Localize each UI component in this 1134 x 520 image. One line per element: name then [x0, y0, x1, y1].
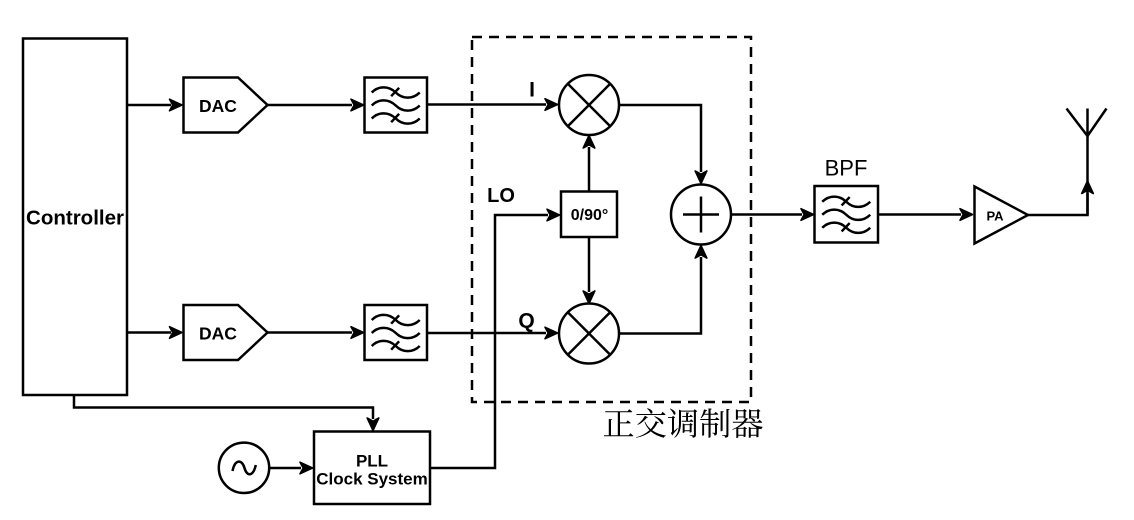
node label Q [518, 310, 534, 333]
svg-text:PA: PA [986, 209, 1004, 224]
wire mixer M2 to summer [619, 246, 707, 334]
svg-text:PLL: PLL [356, 451, 388, 470]
wire Controller to DAC2 [127, 327, 182, 339]
DAC2 block [184, 305, 268, 360]
wire PA to antenna [1028, 181, 1093, 215]
DAC1 block [184, 78, 268, 133]
mixer M2 (Q) [559, 304, 619, 364]
oscillator OSC1 [219, 443, 269, 493]
正 [604, 409, 634, 436]
wire mixer M1 to summer [619, 105, 707, 184]
wire phase shifter to mixer M1 [583, 136, 595, 192]
label BPF [825, 156, 868, 181]
wire OSC1 to PLL [269, 462, 312, 474]
dashed box quadrature modulator [472, 37, 751, 402]
wire Controller to PLL [74, 395, 379, 431]
wire phase shifter to mixer M2 [583, 237, 595, 304]
器 [732, 409, 763, 438]
antenna ANT1 [1067, 109, 1107, 216]
node label I [529, 79, 535, 102]
svg-text:0/90°: 0/90° [571, 207, 609, 224]
svg-text:DAC: DAC [199, 324, 237, 344]
node label LO [487, 185, 515, 207]
svg-text:Controller: Controller [26, 207, 124, 230]
wire LPF2 to mixer M2 [427, 327, 558, 339]
low-pass filter LPF2 [365, 305, 428, 360]
wire DAC2 to LPF2 [268, 327, 364, 339]
交 [636, 408, 666, 438]
wire LO from PLL to phase shifter [430, 209, 560, 468]
label quadrature modulator (CJK) [604, 408, 763, 438]
wire LPF1 to mixer M1 [427, 99, 558, 111]
svg-text:Clock System: Clock System [316, 469, 428, 488]
amplifier PA [975, 187, 1029, 244]
band-pass filter BPF [815, 186, 879, 243]
wire Controller to DAC1 [127, 99, 182, 111]
phase shifter 0/90 [561, 192, 617, 238]
wire BPF to PA [878, 209, 973, 221]
svg-text:I: I [529, 79, 535, 102]
controller block [23, 39, 127, 396]
svg-text:DAC: DAC [199, 96, 237, 116]
svg-text:LO: LO [487, 185, 515, 207]
wire DAC1 to LPF1 [268, 99, 364, 111]
制 [700, 408, 730, 437]
wire summer to BPF [731, 209, 814, 221]
调 [668, 409, 698, 438]
mixer M1 (I) [559, 75, 619, 135]
svg-text:Q: Q [518, 310, 534, 333]
PLL clock system block [314, 432, 430, 505]
low-pass filter LPF1 [365, 78, 428, 133]
svg-text:BPF: BPF [825, 156, 868, 181]
summer S1 [671, 185, 731, 245]
